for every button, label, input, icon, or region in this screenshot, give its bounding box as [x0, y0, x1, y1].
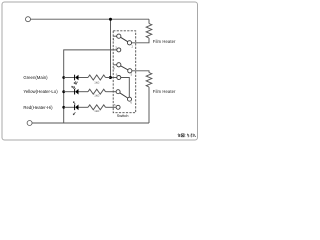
wire R1 bottom to contact B1	[132, 38, 149, 43]
svg-text:Film Heater: Film Heater	[153, 39, 176, 44]
wire yellow row	[64, 91, 116, 93]
svg-text:Switch: Switch	[117, 113, 129, 118]
switch blade S3	[120, 93, 128, 98]
contact C2	[117, 76, 121, 80]
junction dot yellow row left	[62, 90, 65, 93]
junction dot top	[109, 18, 112, 21]
contact C3	[116, 105, 120, 109]
wire main vertical (hot feed)	[110, 19, 112, 77]
contact C1	[117, 48, 121, 52]
terminal T1 (top-left)	[26, 17, 31, 22]
wire stub contact A1	[113, 35, 116, 37]
LED row yellow	[64, 86, 116, 97]
LED D1 arrows	[74, 81, 77, 84]
resistor R4	[88, 89, 106, 94]
contact B2	[128, 69, 132, 73]
wire red row	[64, 106, 116, 108]
resistor R5	[88, 105, 106, 110]
wire stub contact A2	[113, 64, 116, 66]
LED row green	[64, 75, 111, 85]
svg-text:1kΩ: 1kΩ	[94, 109, 99, 113]
contact B3	[128, 97, 132, 101]
LED D1 green	[74, 75, 76, 81]
resistor R1 (film heater top)	[146, 24, 152, 39]
junction dot green row left	[62, 76, 65, 79]
terminal T2 (bottom-left)	[27, 121, 32, 126]
junction dot red row left	[62, 106, 65, 109]
svg-text:Yellow(Heater-Lo): Yellow(Heater-Lo)	[23, 89, 58, 94]
resistor R2 (film heater bottom)	[146, 73, 152, 88]
contact B1	[127, 41, 131, 45]
LED D3 arrows	[73, 102, 75, 115]
svg-text:1kΩ: 1kΩ	[94, 80, 99, 84]
contact A3	[116, 90, 120, 94]
switch blade S1	[121, 37, 128, 42]
wire green row	[64, 77, 111, 79]
svg-text:Film Heater: Film Heater	[153, 89, 176, 94]
wire LED common vertical	[63, 78, 65, 124]
svg-text:1kΩ: 1kΩ	[94, 94, 99, 98]
wire B2 out to R2	[132, 71, 149, 73]
contact A2	[117, 63, 121, 67]
wire top horizontal	[30, 18, 149, 20]
wire neutral to contact C1	[64, 50, 117, 78]
resistor R3	[88, 75, 106, 80]
switch blade S2	[121, 66, 128, 70]
LED row red	[64, 102, 116, 115]
svg-text:Red(Heater-Hi): Red(Heater-Hi)	[23, 105, 53, 110]
svg-text:Green(Main): Green(Main)	[23, 75, 48, 80]
credit text	[178, 134, 196, 138]
wire R2 bottom down to bottom rail	[148, 87, 150, 123]
LED D2 arrows	[72, 86, 76, 89]
switch box (dashed)	[113, 31, 136, 113]
LED D2 yellow	[74, 89, 76, 95]
LED D3 red	[74, 105, 76, 111]
wire C2 to B3 common	[121, 78, 130, 98]
wire R1 top lead	[148, 19, 150, 23]
wire bottom rail	[32, 122, 149, 124]
contact A1	[117, 34, 121, 38]
junction dot hot node	[109, 76, 112, 79]
wire node to contact C2	[111, 77, 117, 79]
